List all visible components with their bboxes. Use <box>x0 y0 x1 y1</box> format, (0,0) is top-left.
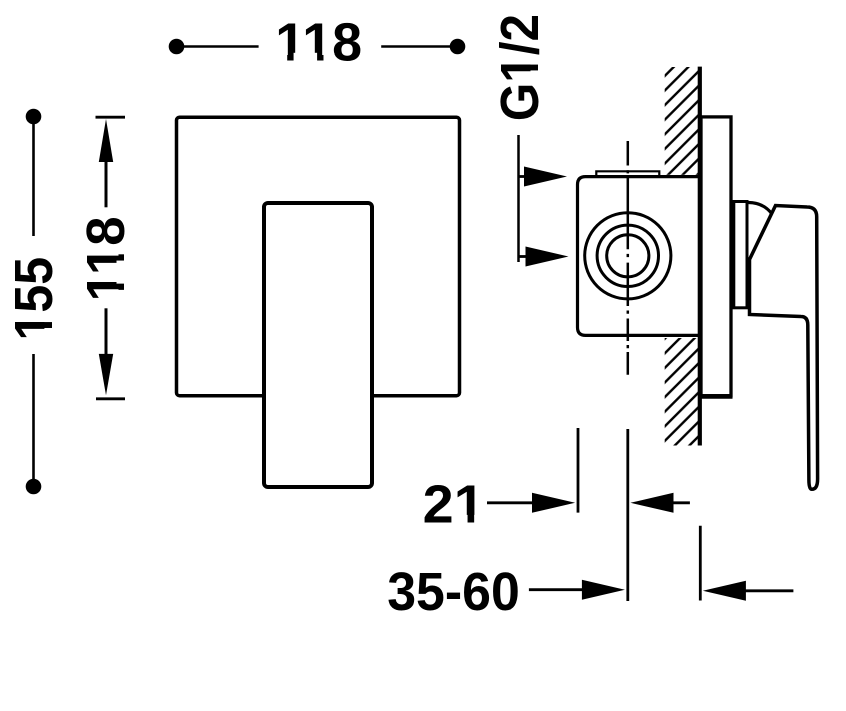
handle blade + tail side view <box>750 206 818 490</box>
dimension 35-60: right-pointing arrow <box>529 580 625 600</box>
G1/2 leader vertical line <box>517 135 520 262</box>
dimension 21: extension line left <box>577 428 580 513</box>
cap lip on top of valve body <box>596 171 659 176</box>
dimension 118 vertical: bottom arrow (pointing down) <box>99 308 113 395</box>
G1/2 upper arrow <box>519 167 568 187</box>
G1/2 lower arrow <box>519 247 569 267</box>
dimension 118 vertical: top tick <box>96 116 126 119</box>
front plate (square 118x118) <box>177 117 460 396</box>
handle back curve (arc) <box>749 203 772 214</box>
dimension 118 horizontal top: right dot <box>450 39 466 55</box>
dimension 118 horizontal top: left line segment <box>180 45 259 48</box>
svg-text:21: 21 <box>423 473 485 534</box>
vertical centerline (dash-dot) <box>627 141 630 375</box>
svg-text:118: 118 <box>77 216 137 301</box>
dimension 35-60: left-pointing arrow <box>703 581 794 601</box>
plate side view <box>701 117 733 397</box>
outer circle of cartridge <box>585 213 671 299</box>
inner circle of cartridge <box>607 235 649 277</box>
dimension 118 vertical: bottom tick <box>96 397 125 400</box>
dimension 155 left: upper line segment <box>32 120 35 236</box>
handle front view (vertical rectangle) <box>264 203 372 487</box>
svg-text:118: 118 <box>275 12 362 72</box>
dimension 21: left-pointing arrow <box>630 493 690 513</box>
wall surface edge line <box>698 67 702 446</box>
centerline extension (solid, for dims) <box>626 429 629 601</box>
G1/2 label (rotated) <box>489 14 550 121</box>
wall hatch lower band <box>665 338 700 446</box>
dimension 155 left: bottom dot <box>26 479 42 495</box>
svg-text:G1/2: G1/2 <box>489 14 550 121</box>
dimension 118 horizontal top: label 118 <box>275 12 362 72</box>
wall hatch upper band <box>665 67 700 175</box>
handle collar side view <box>734 202 747 308</box>
dimension 35-60: extension line right (wall surface) <box>699 526 702 601</box>
dimension 21: label <box>423 473 486 534</box>
dimension 35-60: label <box>387 562 520 622</box>
dimension 118 horizontal top: right line segment <box>381 45 450 48</box>
dimension 118 vertical: top arrow (pointing up) <box>99 119 113 207</box>
svg-text:155: 155 <box>4 257 64 340</box>
dimension 118 vertical: label 118 (rotated) <box>77 216 137 302</box>
dimension 118 horizontal top: left dot <box>169 39 185 55</box>
valve body (rounded square box) <box>578 177 702 336</box>
dimension 21: right-pointing arrow <box>487 493 575 513</box>
svg-text:35-60: 35-60 <box>387 562 520 622</box>
dimension 155 left: top dot <box>26 109 42 125</box>
dimension 155 left: label 155 (rotated) <box>4 257 64 340</box>
dimension 155 left: lower line segment <box>32 354 35 483</box>
middle circle of cartridge <box>597 225 658 286</box>
